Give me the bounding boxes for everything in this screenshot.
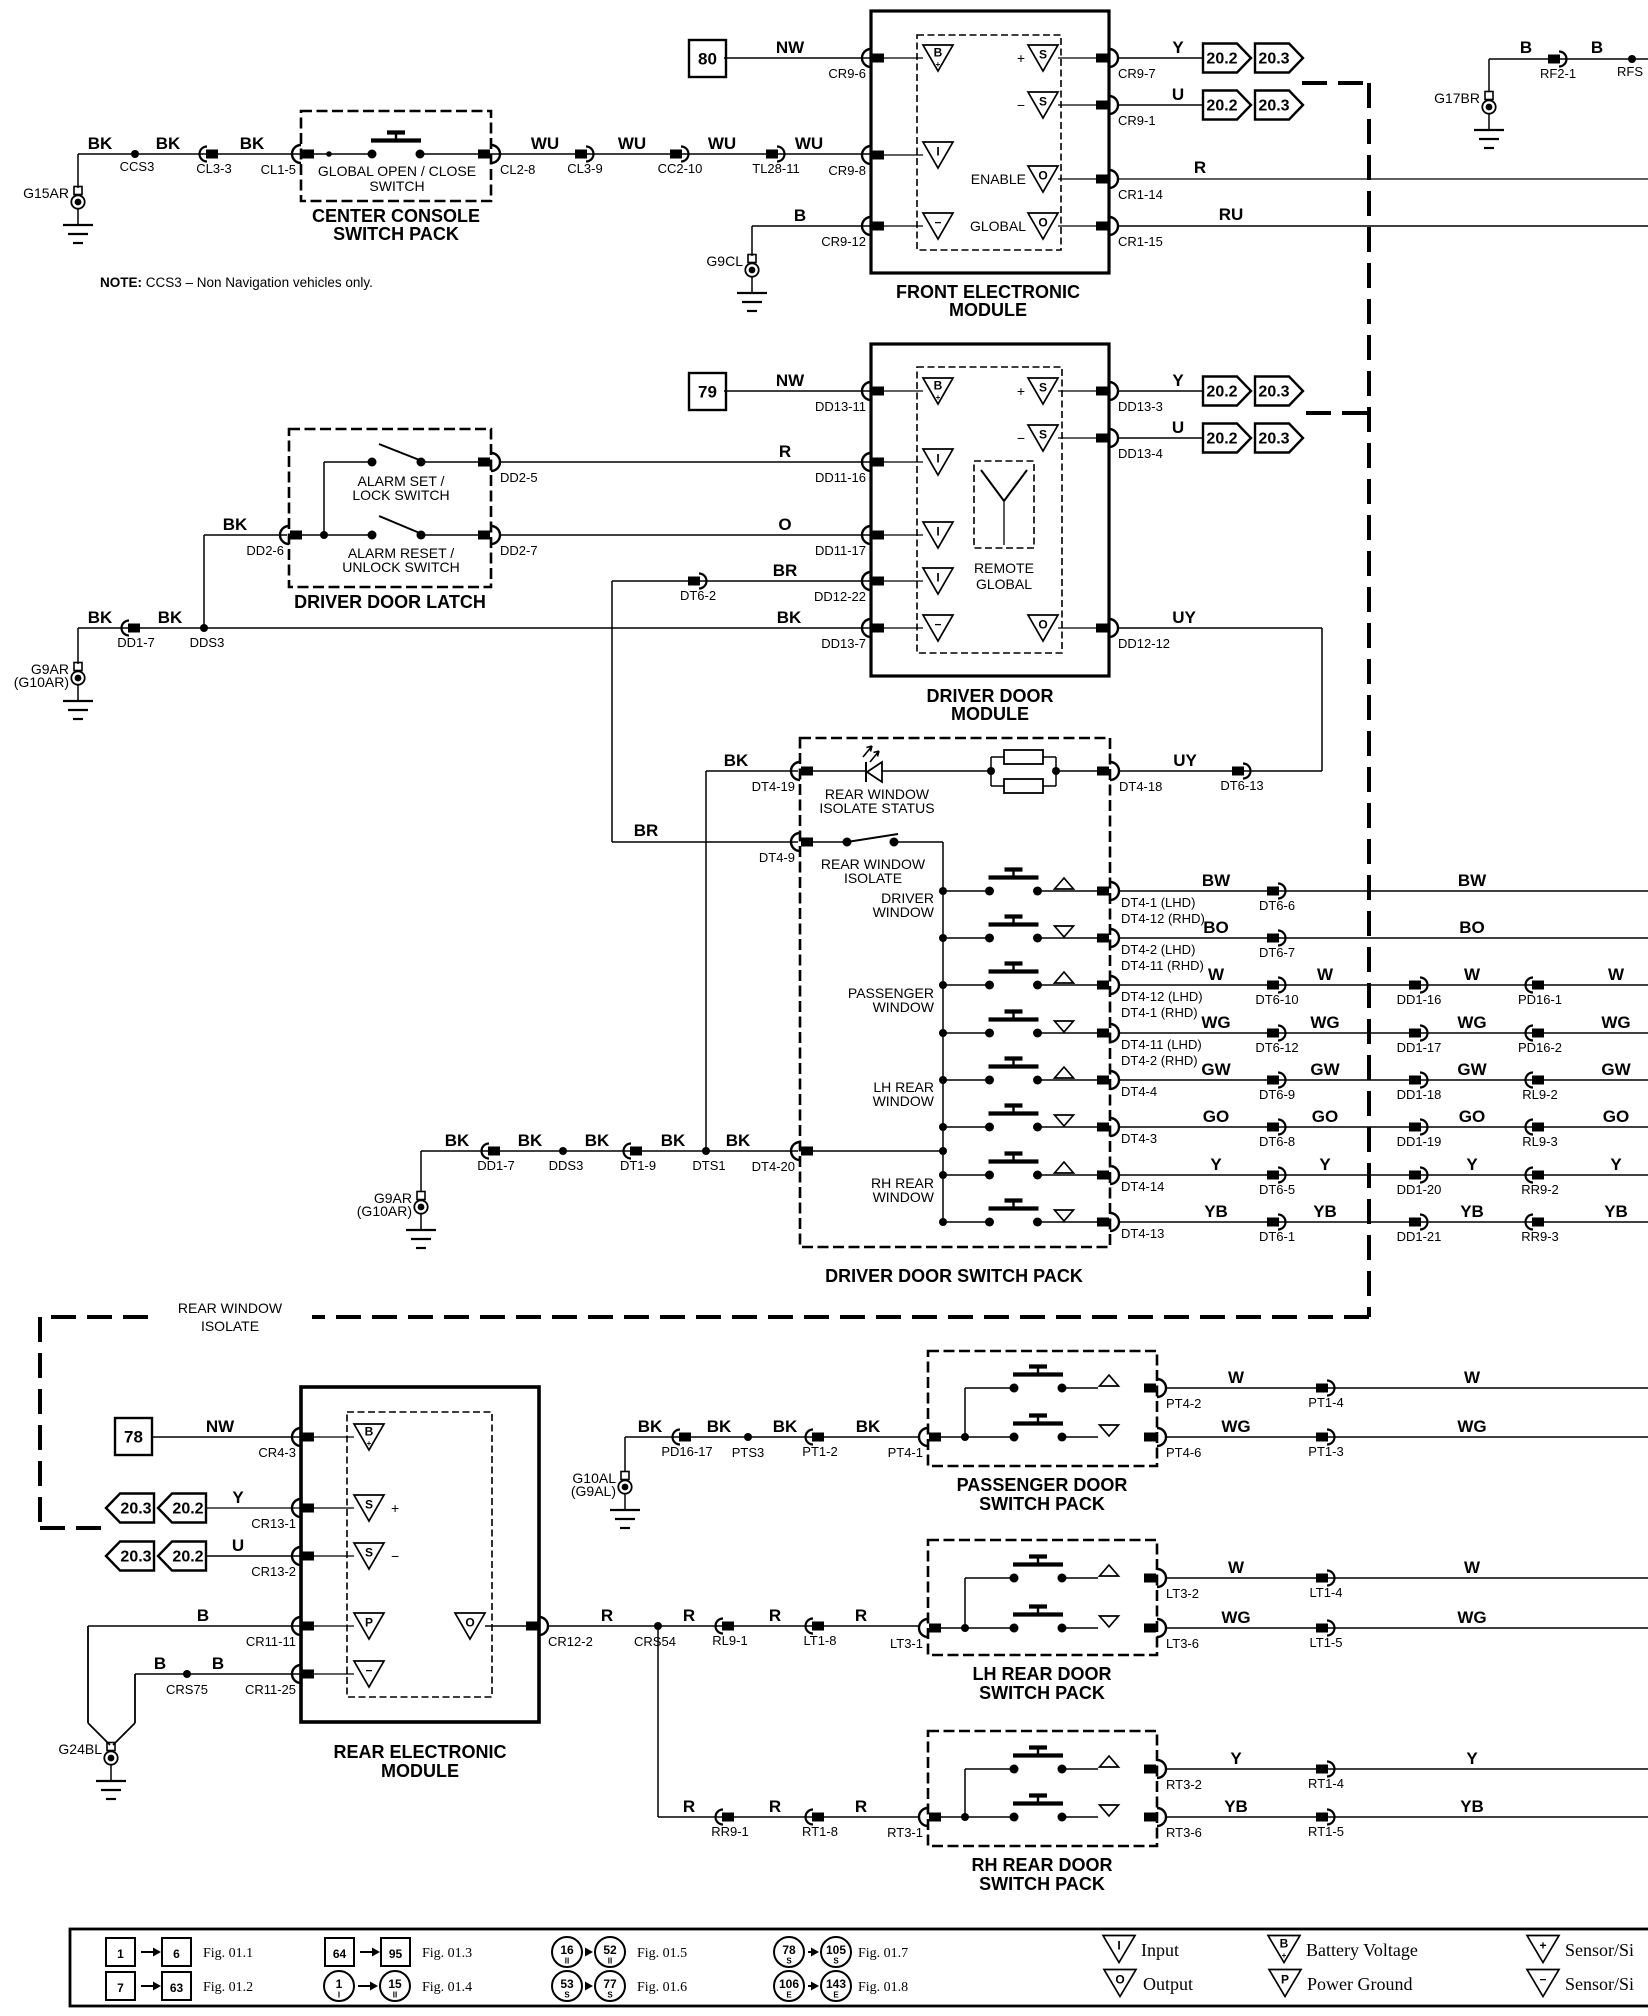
svg-text:REAR WINDOW: REAR WINDOW bbox=[178, 1300, 283, 1316]
window switch row WG bbox=[939, 1029, 947, 1037]
svg-text:−: − bbox=[391, 1548, 399, 1564]
svg-text:DT4-1 (LHD): DT4-1 (LHD) bbox=[1121, 895, 1195, 910]
legend fig 01.4 bbox=[324, 1971, 354, 2001]
svg-text:PT4-1: PT4-1 bbox=[888, 1445, 923, 1460]
svg-text:−: − bbox=[934, 216, 941, 230]
rear window isolate dashed bus bbox=[1302, 81, 1369, 85]
svg-text:G9CL: G9CL bbox=[706, 253, 743, 269]
svg-text:R: R bbox=[779, 442, 791, 461]
svg-text:YB: YB bbox=[1204, 1202, 1228, 1221]
svg-text:DD13-7: DD13-7 bbox=[821, 636, 866, 651]
svg-text:DD1-19: DD1-19 bbox=[1397, 1134, 1442, 1149]
svg-text:NOTE: CCS3 – Non Navigation ve: NOTE: CCS3 – Non Navigation vehicles onl… bbox=[100, 275, 373, 290]
svg-text:I: I bbox=[338, 1991, 340, 2000]
svg-text:CL1-5: CL1-5 bbox=[261, 162, 296, 177]
svg-text:16: 16 bbox=[560, 1943, 574, 1957]
svg-text:78: 78 bbox=[782, 1943, 796, 1957]
svg-text:B: B bbox=[1591, 38, 1603, 57]
connector RR9-3 bbox=[1526, 1215, 1533, 1230]
junction DTS1 bbox=[702, 1147, 710, 1155]
symbol input I bbox=[923, 449, 953, 475]
wire RU global bbox=[1117, 225, 1648, 227]
svg-text:+: + bbox=[1017, 50, 1025, 66]
svg-text:80: 80 bbox=[698, 50, 717, 69]
svg-text:DD13-3: DD13-3 bbox=[1118, 399, 1163, 414]
pin LT3-2 bbox=[1157, 1569, 1166, 1587]
svg-text:BK: BK bbox=[518, 1131, 543, 1150]
connector RL9-3 bbox=[1526, 1120, 1533, 1135]
svg-text:UNLOCK SWITCH: UNLOCK SWITCH bbox=[342, 559, 459, 575]
svg-text:DDS3: DDS3 bbox=[549, 1158, 584, 1173]
svg-text:U: U bbox=[1172, 418, 1184, 437]
svg-text:20.2: 20.2 bbox=[1206, 431, 1237, 448]
window switch row GO bbox=[939, 1123, 947, 1131]
pin DT4-19 bbox=[791, 762, 800, 780]
svg-text:BK: BK bbox=[223, 515, 248, 534]
svg-text:PD16-2: PD16-2 bbox=[1518, 1040, 1562, 1055]
svg-text:DT6-9: DT6-9 bbox=[1259, 1087, 1295, 1102]
legend fig 01.6 bbox=[552, 1971, 582, 2001]
svg-text:P: P bbox=[1281, 1973, 1289, 1987]
svg-text:LT1-5: LT1-5 bbox=[1310, 1635, 1343, 1650]
svg-text:LT1-4: LT1-4 bbox=[1310, 1585, 1343, 1600]
wire BK ground bus lower bbox=[421, 1150, 798, 1152]
global open/close switch bbox=[368, 150, 377, 159]
svg-text:Fig. 01.5: Fig. 01.5 bbox=[637, 1946, 687, 1961]
pin DD12-12 bbox=[1109, 619, 1118, 637]
svg-text:LT1-8: LT1-8 bbox=[804, 1633, 837, 1648]
svg-text:20.3: 20.3 bbox=[120, 1501, 151, 1518]
ground G9AR (G10AR) bbox=[74, 663, 82, 671]
svg-text:CR12-2: CR12-2 bbox=[548, 1634, 593, 1649]
svg-text:ISOLATE STATUS: ISOLATE STATUS bbox=[819, 800, 934, 816]
wire U to off-page bbox=[1117, 104, 1203, 106]
svg-text:NW: NW bbox=[776, 38, 805, 57]
connector PT1-2 bbox=[806, 1430, 813, 1445]
pin DT4-2 bbox=[1110, 929, 1119, 947]
svg-text:S: S bbox=[1039, 48, 1047, 62]
svg-text:20.2: 20.2 bbox=[1206, 51, 1237, 68]
connector CC2-10 bbox=[681, 147, 689, 162]
svg-text:+: + bbox=[391, 1500, 399, 1516]
legend output symbol bbox=[1104, 1970, 1136, 1997]
legend fig 01.3 bbox=[325, 1938, 354, 1966]
svg-text:(G9AL): (G9AL) bbox=[571, 1483, 616, 1499]
legend fig 01.7 bbox=[774, 1937, 804, 1967]
svg-text:GW: GW bbox=[1457, 1060, 1487, 1079]
svg-text:20.2: 20.2 bbox=[1206, 98, 1237, 115]
svg-text:DT4-19: DT4-19 bbox=[752, 779, 795, 794]
wire B to G9CL bbox=[752, 225, 871, 227]
pin LT3-1 bbox=[919, 1619, 928, 1637]
svg-text:W: W bbox=[1464, 1558, 1481, 1577]
legend input symbol bbox=[1103, 1936, 1135, 1963]
svg-text:B: B bbox=[934, 46, 943, 60]
svg-text:SWITCH PACK: SWITCH PACK bbox=[979, 1683, 1105, 1703]
svg-text:BK: BK bbox=[88, 608, 113, 627]
connector PT1-3 bbox=[1327, 1430, 1335, 1445]
svg-text:DD12-12: DD12-12 bbox=[1118, 636, 1170, 651]
connector PD16-2 bbox=[1526, 1026, 1533, 1041]
svg-text:−: − bbox=[1017, 97, 1025, 113]
svg-text:R: R bbox=[601, 1606, 613, 1625]
connector DT6-2 bbox=[699, 574, 707, 589]
symbol sensor minus bbox=[354, 1661, 384, 1687]
symbol output O bbox=[455, 1613, 485, 1639]
svg-text:S: S bbox=[1039, 381, 1047, 395]
svg-text:+: + bbox=[1017, 383, 1025, 399]
connector CL3-9 bbox=[586, 147, 594, 162]
junction CRS75 bbox=[183, 1670, 191, 1678]
pin DT4-11 bbox=[1110, 1024, 1119, 1042]
svg-text:DT4-13: DT4-13 bbox=[1121, 1226, 1164, 1241]
window down switch bbox=[1010, 1433, 1019, 1442]
svg-text:U: U bbox=[232, 1536, 244, 1555]
svg-text:20.2: 20.2 bbox=[172, 1549, 203, 1566]
window down switch bbox=[1010, 1813, 1019, 1822]
svg-text:CR11-25: CR11-25 bbox=[245, 1682, 296, 1697]
legend battery voltage symbol bbox=[1268, 1936, 1300, 1963]
svg-text:Y: Y bbox=[1319, 1155, 1331, 1174]
connector RT1-4 bbox=[1327, 1762, 1335, 1777]
svg-text:GO: GO bbox=[1203, 1107, 1229, 1126]
symbol sensor minus bbox=[923, 213, 953, 239]
svg-text:DT1-9: DT1-9 bbox=[620, 1158, 656, 1173]
svg-text:DT4-18: DT4-18 bbox=[1119, 779, 1162, 794]
svg-text:I: I bbox=[936, 145, 939, 159]
svg-text:DT4-9: DT4-9 bbox=[759, 850, 795, 865]
svg-text:78: 78 bbox=[124, 1428, 143, 1447]
svg-text:7: 7 bbox=[117, 1981, 124, 1995]
svg-text:20.3: 20.3 bbox=[1258, 431, 1289, 448]
svg-text:LT3-2: LT3-2 bbox=[1166, 1586, 1199, 1601]
connector DD1-7 bbox=[482, 1144, 489, 1159]
wire pin stubs DDM bbox=[884, 390, 923, 392]
pin CR11-11 bbox=[292, 1617, 301, 1635]
wire WG bbox=[1165, 1627, 1648, 1629]
connector RL9-1 bbox=[716, 1619, 724, 1634]
pin CR9-6 bbox=[862, 49, 871, 67]
wire BR isolate to DDM bbox=[612, 580, 871, 582]
svg-text:P: P bbox=[365, 1616, 373, 1630]
PASSENGER DOOR SWITCH PACK box bbox=[928, 1351, 1157, 1466]
svg-text:RR9-3: RR9-3 bbox=[1521, 1229, 1559, 1244]
connector DT6-8 bbox=[1278, 1120, 1286, 1135]
center console switch pack box bbox=[301, 111, 491, 201]
svg-text:20.3: 20.3 bbox=[1258, 98, 1289, 115]
svg-text:CR13-2: CR13-2 bbox=[251, 1564, 296, 1579]
svg-text:DT6-5: DT6-5 bbox=[1259, 1182, 1295, 1197]
svg-text:1: 1 bbox=[336, 1977, 343, 1991]
pin CR1-14 bbox=[1109, 170, 1118, 188]
svg-text:WG: WG bbox=[1201, 1013, 1230, 1032]
svg-text:Fig. 01.3: Fig. 01.3 bbox=[422, 1946, 472, 1961]
symbol input I bbox=[923, 522, 953, 548]
svg-text:WG: WG bbox=[1457, 1608, 1486, 1627]
svg-text:WINDOW: WINDOW bbox=[873, 999, 935, 1015]
svg-text:BK: BK bbox=[158, 608, 183, 627]
svg-text:DT6-1: DT6-1 bbox=[1259, 1229, 1295, 1244]
RH REAR DOOR SWITCH PACK box bbox=[928, 1731, 1157, 1846]
svg-text:SWITCH PACK: SWITCH PACK bbox=[979, 1494, 1105, 1514]
svg-text:RU: RU bbox=[1219, 205, 1244, 224]
svg-text:CRS75: CRS75 bbox=[166, 1682, 208, 1697]
svg-text:S: S bbox=[1039, 95, 1047, 109]
svg-text:LT3-1: LT3-1 bbox=[890, 1636, 923, 1651]
svg-text:B: B bbox=[365, 1425, 374, 1439]
svg-text:O: O bbox=[465, 1616, 474, 1630]
svg-text:G15AR: G15AR bbox=[23, 185, 69, 201]
svg-text:GW: GW bbox=[1601, 1060, 1631, 1079]
wire BO bbox=[1118, 937, 1648, 939]
svg-text:R: R bbox=[855, 1606, 867, 1625]
junction CCS3 bbox=[131, 150, 139, 158]
svg-text:GO: GO bbox=[1312, 1107, 1338, 1126]
svg-text:S: S bbox=[833, 1957, 839, 1966]
wire GO bbox=[1118, 1126, 1648, 1128]
wire R lock bbox=[499, 461, 871, 463]
svg-text:PD16-17: PD16-17 bbox=[661, 1444, 712, 1459]
svg-text:RT3-1: RT3-1 bbox=[887, 1825, 923, 1840]
svg-text:RH REAR DOOR: RH REAR DOOR bbox=[971, 1855, 1112, 1875]
connector TL28-11 bbox=[777, 147, 785, 162]
svg-text:BK: BK bbox=[724, 751, 749, 770]
ground G17BR bbox=[1485, 92, 1493, 100]
svg-text:II: II bbox=[608, 1957, 612, 1966]
svg-text:BK: BK bbox=[773, 1417, 798, 1436]
svg-text:+: + bbox=[367, 1439, 372, 1448]
connector PD16-1 bbox=[1526, 978, 1533, 993]
pin CR13-1 bbox=[292, 1499, 301, 1517]
svg-text:MODULE: MODULE bbox=[951, 704, 1029, 724]
svg-text:+: + bbox=[1539, 1939, 1546, 1953]
svg-text:GLOBAL: GLOBAL bbox=[970, 218, 1026, 234]
connector RL9-2 bbox=[1526, 1073, 1533, 1088]
connector DT6-10 bbox=[1278, 978, 1286, 993]
connector DD1-17 bbox=[1420, 1026, 1428, 1041]
pin DD12-22 bbox=[862, 572, 871, 590]
svg-text:O: O bbox=[1038, 618, 1047, 632]
svg-text:Fig. 01.1: Fig. 01.1 bbox=[203, 1946, 253, 1961]
svg-text:DRIVER DOOR LATCH: DRIVER DOOR LATCH bbox=[294, 592, 486, 612]
driver door latch box bbox=[289, 429, 491, 587]
svg-text:BK: BK bbox=[777, 608, 802, 627]
svg-text:E: E bbox=[786, 1991, 792, 2000]
svg-text:(G10AR): (G10AR) bbox=[357, 1203, 412, 1219]
LED rear window isolate status bbox=[865, 762, 867, 782]
svg-text:DT4-12 (RHD): DT4-12 (RHD) bbox=[1121, 911, 1205, 926]
wire pin stubs REM bbox=[314, 1436, 354, 1438]
svg-text:DT6-12: DT6-12 bbox=[1255, 1040, 1298, 1055]
svg-text:WU: WU bbox=[618, 134, 646, 153]
svg-text:BR: BR bbox=[773, 561, 798, 580]
wire GW bbox=[1118, 1079, 1648, 1081]
svg-text:(G10AR): (G10AR) bbox=[14, 674, 69, 690]
svg-text:Y: Y bbox=[1230, 1749, 1242, 1768]
pin DT4-3 bbox=[1110, 1118, 1119, 1136]
svg-text:REAR ELECTRONIC: REAR ELECTRONIC bbox=[333, 1742, 506, 1762]
svg-text:DD2-7: DD2-7 bbox=[500, 543, 538, 558]
svg-text:S: S bbox=[564, 1991, 570, 2000]
svg-text:95: 95 bbox=[389, 1947, 403, 1961]
svg-text:GW: GW bbox=[1201, 1060, 1231, 1079]
junction CRS54 bbox=[654, 1622, 662, 1630]
svg-text:YB: YB bbox=[1224, 1797, 1248, 1816]
svg-text:DD12-22: DD12-22 bbox=[814, 589, 866, 604]
svg-text:+: + bbox=[936, 60, 941, 69]
window up switch bbox=[1010, 1384, 1019, 1393]
svg-text:O: O bbox=[1115, 1973, 1124, 1987]
junction DDS3 bbox=[559, 1147, 567, 1155]
connector DT6-7 bbox=[1278, 931, 1286, 946]
wire NW bbox=[724, 57, 871, 59]
node stub dot bbox=[326, 151, 332, 157]
svg-text:DT6-10: DT6-10 bbox=[1255, 992, 1298, 1007]
svg-text:BW: BW bbox=[1202, 871, 1231, 890]
svg-text:BK: BK bbox=[156, 134, 181, 153]
svg-text:63: 63 bbox=[170, 1981, 184, 1995]
svg-text:PT4-6: PT4-6 bbox=[1166, 1445, 1201, 1460]
svg-text:Input: Input bbox=[1141, 1940, 1179, 1960]
svg-text:CL2-8: CL2-8 bbox=[500, 162, 535, 177]
wire pin stubs FEM bbox=[884, 57, 923, 59]
svg-text:LH REAR DOOR: LH REAR DOOR bbox=[973, 1664, 1112, 1684]
svg-text:CR9-12: CR9-12 bbox=[821, 234, 866, 249]
wire O unlock bbox=[499, 534, 871, 536]
wire internal feed bbox=[941, 1816, 1014, 1818]
connector LT1-8 bbox=[806, 1619, 813, 1634]
pin CR13-2 bbox=[292, 1547, 301, 1565]
svg-text:CR4-3: CR4-3 bbox=[258, 1445, 296, 1460]
wire BK to passenger switch pack bbox=[625, 1436, 920, 1438]
connector DT6-13 bbox=[1243, 764, 1251, 779]
svg-text:BK: BK bbox=[240, 134, 265, 153]
pin DT4-14 bbox=[1110, 1166, 1119, 1184]
svg-text:W: W bbox=[1228, 1558, 1245, 1577]
svg-text:WG: WG bbox=[1310, 1013, 1339, 1032]
svg-text:WINDOW: WINDOW bbox=[873, 1189, 935, 1205]
svg-text:S: S bbox=[365, 1498, 373, 1512]
svg-text:BK: BK bbox=[726, 1131, 751, 1150]
svg-text:PT4-2: PT4-2 bbox=[1166, 1396, 1201, 1411]
ground G9AR (G10AR) lower bbox=[417, 1192, 425, 1200]
connector CL3-3 bbox=[200, 147, 207, 162]
svg-text:DD1-7: DD1-7 bbox=[117, 635, 155, 650]
ground G10AL (G9AL) bbox=[621, 1472, 629, 1480]
connector RT1-5 bbox=[1327, 1810, 1335, 1825]
pin CR9-12 bbox=[862, 217, 871, 235]
svg-text:79: 79 bbox=[698, 383, 717, 402]
wire UY to DT6-13 bbox=[1118, 770, 1322, 772]
svg-text:W: W bbox=[1464, 1368, 1481, 1387]
pin CL2-8 bbox=[491, 145, 500, 163]
svg-text:WINDOW: WINDOW bbox=[873, 904, 935, 920]
svg-text:RR9-1: RR9-1 bbox=[711, 1824, 749, 1839]
svg-text:W: W bbox=[1208, 965, 1225, 984]
svg-text:DT6-7: DT6-7 bbox=[1259, 945, 1295, 960]
svg-text:Fig. 01.8: Fig. 01.8 bbox=[858, 1980, 908, 1995]
wire BK ground bus to center console switch pack bbox=[78, 153, 372, 155]
svg-text:E: E bbox=[833, 1991, 839, 2000]
legend sensor minus symbol bbox=[1527, 1970, 1559, 1997]
svg-text:DD1-18: DD1-18 bbox=[1397, 1087, 1442, 1102]
legend fig 01.8 bbox=[774, 1971, 804, 2001]
pin DD13-11 bbox=[862, 382, 871, 400]
wire W bbox=[1165, 1577, 1648, 1579]
wire R enable bbox=[1117, 178, 1648, 180]
svg-text:20.2: 20.2 bbox=[1206, 384, 1237, 401]
svg-text:BK: BK bbox=[638, 1417, 663, 1436]
pin DT4-4 bbox=[1110, 1071, 1119, 1089]
svg-text:+: + bbox=[1282, 1951, 1287, 1960]
connector PT1-4 bbox=[1327, 1381, 1335, 1396]
svg-text:RL9-1: RL9-1 bbox=[712, 1633, 747, 1648]
symbol input I bbox=[923, 142, 953, 168]
window switch row BO bbox=[939, 934, 947, 942]
svg-text:GO: GO bbox=[1603, 1107, 1629, 1126]
legend fig 01.1 bbox=[106, 1938, 135, 1966]
svg-text:WINDOW: WINDOW bbox=[873, 1093, 935, 1109]
svg-text:PT1-4: PT1-4 bbox=[1308, 1395, 1343, 1410]
svg-text:20.3: 20.3 bbox=[120, 1549, 151, 1566]
pin PT4-2 bbox=[1157, 1379, 1166, 1397]
symbol battery voltage B+ bbox=[354, 1424, 384, 1450]
svg-text:NW: NW bbox=[206, 1417, 235, 1436]
svg-text:I: I bbox=[936, 571, 939, 585]
svg-text:DD1-20: DD1-20 bbox=[1397, 1182, 1442, 1197]
connector DT6-5 bbox=[1278, 1168, 1286, 1183]
svg-text:R: R bbox=[769, 1797, 781, 1816]
svg-text:RL9-2: RL9-2 bbox=[1522, 1087, 1557, 1102]
svg-text:WG: WG bbox=[1601, 1013, 1630, 1032]
connector box 79 bbox=[689, 373, 726, 410]
wire BK feed row bbox=[806, 1150, 943, 1152]
svg-text:BO: BO bbox=[1203, 918, 1229, 937]
svg-text:CR1-15: CR1-15 bbox=[1118, 234, 1163, 249]
svg-text:DD13-11: DD13-11 bbox=[815, 399, 866, 414]
connector DT6-12 bbox=[1278, 1026, 1286, 1041]
svg-text:PTS3: PTS3 bbox=[732, 1445, 765, 1460]
svg-text:Fig. 01.6: Fig. 01.6 bbox=[637, 1980, 687, 1995]
pin CR1-15 bbox=[1109, 217, 1118, 235]
junction DDS3 bbox=[200, 624, 208, 632]
svg-text:Fig. 01.7: Fig. 01.7 bbox=[858, 1946, 908, 1961]
svg-text:DD2-6: DD2-6 bbox=[246, 543, 284, 558]
svg-text:CRS54: CRS54 bbox=[634, 1634, 676, 1649]
svg-text:Sensor/Si: Sensor/Si bbox=[1565, 1974, 1634, 1994]
connector DT6-1 bbox=[1278, 1215, 1286, 1230]
pin DT4-1 bbox=[1110, 882, 1119, 900]
svg-text:CR13-1: CR13-1 bbox=[251, 1516, 296, 1531]
svg-text:O: O bbox=[1038, 216, 1047, 230]
svg-text:Fig. 01.2: Fig. 01.2 bbox=[203, 1980, 253, 1995]
svg-text:DRIVER DOOR: DRIVER DOOR bbox=[926, 686, 1053, 706]
wire Y off-page left bbox=[106, 1494, 154, 1523]
svg-text:Y: Y bbox=[1466, 1155, 1478, 1174]
svg-text:WU: WU bbox=[795, 134, 823, 153]
svg-text:Y: Y bbox=[1610, 1155, 1622, 1174]
svg-text:O: O bbox=[1038, 169, 1047, 183]
wire W bbox=[1165, 1387, 1648, 1389]
legend sensor plus symbol bbox=[1527, 1936, 1559, 1963]
svg-text:I: I bbox=[1117, 1939, 1120, 1953]
wire BK ground bus DDM bbox=[78, 627, 871, 629]
pin DD13-4 bbox=[1109, 429, 1118, 447]
connector RR9-2 bbox=[1526, 1168, 1533, 1183]
connector box 78 bbox=[115, 1418, 152, 1455]
wire BK to DT4-19 bbox=[706, 770, 798, 772]
svg-text:S: S bbox=[786, 1957, 792, 1966]
